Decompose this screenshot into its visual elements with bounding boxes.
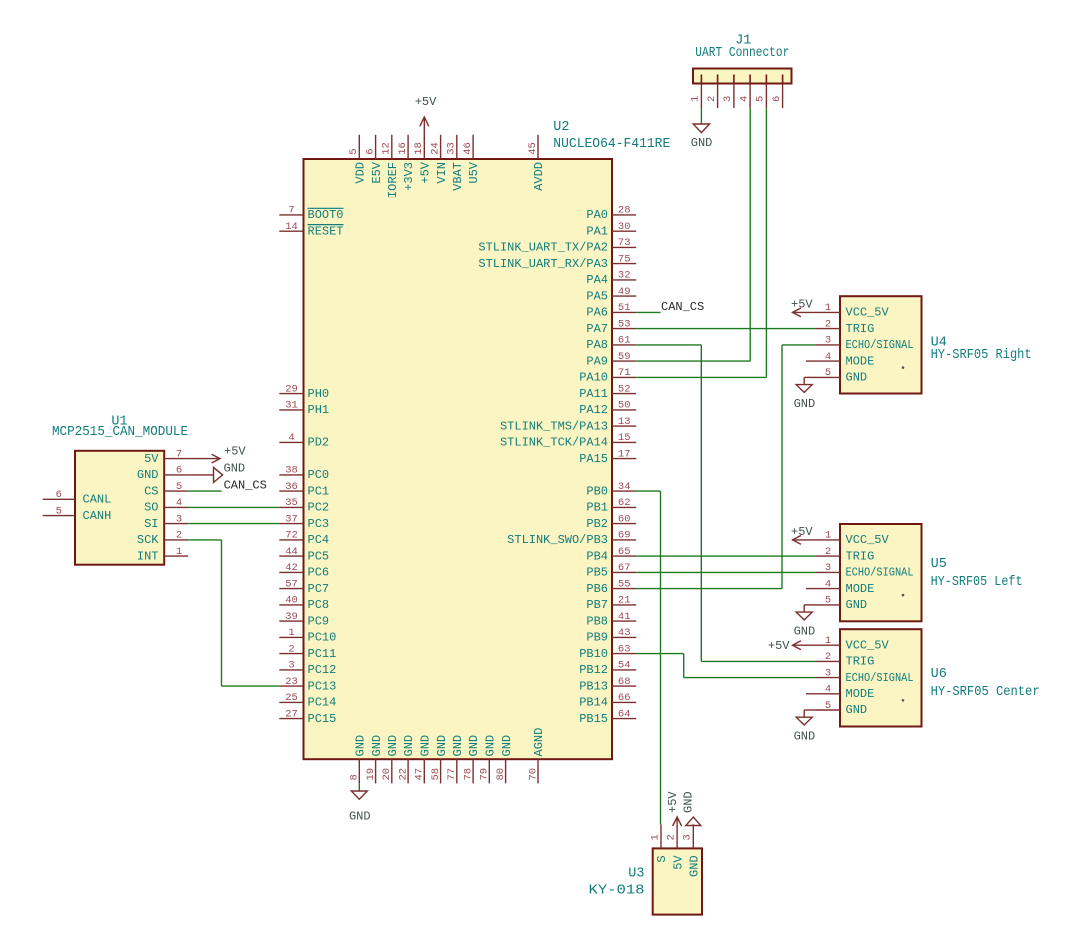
svg-text:PC8: PC8	[308, 598, 330, 612]
+5V power symbol at U1 pin 7	[188, 445, 246, 463]
J1 pin 6	[771, 75, 783, 109]
svg-text:+3V3: +3V3	[402, 162, 416, 191]
svg-text:TRIG: TRIG	[846, 322, 875, 336]
svg-text:GND: GND	[794, 730, 816, 744]
U1 pin 1 INT (right)	[137, 546, 188, 564]
svg-text:RESET: RESET	[308, 224, 344, 238]
svg-text:CAN_CS: CAN_CS	[661, 300, 704, 314]
U2 pin 66 PB14 (right)	[579, 692, 636, 709]
U2 pin 42 PC6 (left)	[279, 562, 329, 579]
svg-text:PD2: PD2	[308, 436, 330, 450]
U2 pin 12 IOREF (top)	[381, 135, 400, 198]
svg-text:GND: GND	[386, 735, 400, 757]
U2 pin 35 PC2 (left)	[279, 497, 329, 514]
svg-text:VCC_5V: VCC_5V	[846, 638, 890, 652]
U2 pin 53 PA7 (right)	[586, 318, 636, 335]
wire PB0 to U3 pin S	[636, 491, 660, 824]
svg-text:TRIG: TRIG	[846, 655, 875, 669]
svg-text:25: 25	[285, 692, 298, 704]
svg-text:1: 1	[288, 627, 294, 639]
U2 pin 23 PC13 (left)	[279, 676, 336, 694]
U2 pin 47 GND (bottom)	[414, 735, 433, 784]
U2 pin 18 +5V (top)	[413, 135, 432, 184]
svg-text:STLINK_UART_RX/PA3: STLINK_UART_RX/PA3	[478, 257, 608, 271]
U2 pin 33 VBAT (top)	[446, 135, 465, 191]
U2 pin 45 AVDD (top)	[527, 135, 546, 191]
svg-text:U2: U2	[553, 120, 569, 135]
svg-text:68: 68	[618, 676, 631, 688]
wire U1 SI to U2 PC3	[188, 523, 279, 525]
U2 pin 8 GND (bottom)	[349, 735, 368, 784]
U2 pin 13 STLINK_TMS/PA13 (right)	[500, 416, 636, 433]
svg-text:77: 77	[446, 768, 458, 781]
svg-text:CANH: CANH	[83, 509, 112, 523]
U6 value HY-SRF05 Center	[931, 685, 1040, 700]
svg-text:2: 2	[706, 96, 718, 102]
svg-text:27: 27	[285, 708, 298, 720]
svg-text:71: 71	[618, 367, 631, 379]
svg-text:GND: GND	[484, 735, 498, 757]
svg-text:STLINK_TMS/PA13: STLINK_TMS/PA13	[500, 419, 608, 433]
svg-text:4: 4	[825, 351, 831, 363]
U2 pin 16 +3V3 (top)	[397, 135, 416, 191]
svg-text:E5V: E5V	[370, 161, 384, 183]
U2 pin 5 VDD (top)	[348, 135, 367, 184]
svg-text:PB2: PB2	[586, 517, 608, 531]
svg-text:5: 5	[825, 595, 831, 607]
wire PB5 to U5 ECHO/SIGNAL	[636, 571, 816, 573]
svg-text:37: 37	[285, 513, 298, 525]
U2 pin 46 U5V (top)	[462, 135, 481, 184]
svg-text:GND: GND	[846, 703, 868, 717]
svg-text:GND: GND	[794, 624, 816, 638]
U2 pin 80 GND (bottom)	[495, 735, 514, 784]
svg-text:4: 4	[825, 684, 831, 696]
U2 pin 37 PC3 (left)	[279, 513, 329, 531]
svg-text:PB13: PB13	[579, 679, 608, 693]
U4 pin 5 GND	[816, 367, 867, 384]
U2 pin 40 PC8 (left)	[279, 595, 329, 612]
svg-text:21: 21	[618, 595, 631, 607]
svg-text:PA7: PA7	[586, 322, 608, 336]
svg-text:ECHO/SIGNAL: ECHO/SIGNAL	[846, 671, 914, 685]
U2 pin 63 PB10 (right)	[579, 643, 636, 661]
svg-text:PA8: PA8	[586, 338, 608, 352]
svg-text:70: 70	[527, 768, 539, 781]
svg-text:PC6: PC6	[308, 566, 330, 580]
svg-text:PC11: PC11	[308, 647, 337, 661]
GND power symbol at U1 pin 6	[188, 461, 245, 482]
svg-text:18: 18	[413, 142, 425, 155]
svg-text:51: 51	[618, 302, 631, 314]
svg-text:4: 4	[176, 497, 182, 509]
U1 pin 2 SCK (right)	[137, 530, 188, 547]
J1 pin 4	[738, 75, 750, 109]
U6 reference designator U6	[931, 667, 947, 682]
svg-text:1: 1	[649, 834, 661, 840]
svg-text:6: 6	[364, 148, 376, 154]
U4 reference designator U4	[931, 336, 947, 351]
svg-text:58: 58	[430, 768, 442, 781]
svg-text:VDD: VDD	[354, 162, 368, 184]
svg-text:49: 49	[618, 286, 631, 298]
svg-text:+5V: +5V	[419, 161, 433, 183]
svg-text:75: 75	[618, 253, 631, 265]
U1 pin 7 5V (right)	[144, 448, 188, 465]
svg-text:45: 45	[527, 142, 539, 155]
svg-text:CAN_CS: CAN_CS	[224, 479, 267, 493]
U2 pin 7 BOOT0 (left)	[279, 205, 343, 222]
GND power symbol at U2 pin 8	[349, 783, 371, 823]
svg-text:35: 35	[285, 497, 298, 509]
svg-text:53: 53	[618, 318, 631, 330]
U2 reference designator U2	[553, 120, 569, 135]
svg-text:60: 60	[618, 513, 631, 525]
U2 pin 25 PC14 (left)	[279, 692, 336, 709]
+5V power symbol at U5 pin 1	[791, 525, 816, 544]
svg-text:66: 66	[618, 692, 631, 704]
svg-text:GND: GND	[467, 735, 481, 757]
svg-text:41: 41	[618, 611, 631, 623]
svg-text:24: 24	[429, 142, 441, 155]
U2 pin 64 PB15 (right)	[579, 708, 636, 726]
svg-text:19: 19	[365, 768, 377, 781]
svg-text:46: 46	[462, 142, 474, 155]
U2 pin 70 AGND (bottom)	[527, 728, 546, 784]
svg-text:3: 3	[825, 667, 831, 679]
svg-text:80: 80	[495, 768, 507, 781]
svg-text:6: 6	[56, 489, 62, 501]
wire PA6 to CAN_CS label stub	[636, 311, 660, 313]
svg-text:63: 63	[618, 643, 631, 655]
svg-text:PC5: PC5	[308, 549, 330, 563]
svg-text:34: 34	[618, 481, 631, 493]
svg-text:HY-SRF05 Right: HY-SRF05 Right	[931, 348, 1032, 363]
U2 pin 54 PB12 (right)	[579, 660, 636, 677]
net label CAN_CS at PA6	[661, 300, 704, 314]
svg-text:5: 5	[56, 505, 62, 517]
svg-text:31: 31	[285, 400, 298, 412]
svg-text:PB12: PB12	[579, 663, 608, 677]
svg-text:GND: GND	[691, 136, 713, 150]
svg-text:PA6: PA6	[586, 306, 608, 320]
U2 pin 34 PB0 (right)	[586, 481, 636, 498]
svg-text:54: 54	[618, 660, 631, 672]
U2 pin 61 PA8 (right)	[586, 335, 636, 352]
wire U1 CS to CAN_CS label stub	[188, 490, 221, 492]
svg-text:CANL: CANL	[83, 493, 112, 507]
U5 value HY-SRF05 Left	[931, 575, 1023, 590]
svg-text:+5V: +5V	[666, 791, 680, 813]
svg-text:28: 28	[618, 205, 631, 217]
svg-text:GND: GND	[846, 598, 868, 612]
svg-text:72: 72	[285, 530, 298, 542]
U2 pin 36 PC1 (left)	[279, 481, 329, 498]
svg-text:23: 23	[285, 676, 298, 688]
svg-text:20: 20	[381, 768, 393, 781]
svg-text:69: 69	[618, 530, 631, 542]
U2 pin 29 PH0 (left)	[279, 383, 329, 400]
U2 pin 17 PA15 (right)	[579, 448, 636, 465]
svg-text:42: 42	[285, 562, 298, 574]
J1 reference designator J1	[735, 34, 751, 49]
U3 pin 3 GND (top)	[682, 824, 702, 877]
svg-text:3: 3	[825, 562, 831, 574]
svg-text:+5V: +5V	[224, 445, 246, 459]
U2 pin 72 PC4 (left)	[279, 530, 329, 547]
svg-text:7: 7	[288, 205, 294, 217]
U2 pin 27 PC15 (left)	[279, 708, 336, 726]
U2 pin 31 PH1 (left)	[279, 400, 329, 417]
svg-text:64: 64	[618, 708, 631, 720]
svg-text:36: 36	[285, 481, 298, 493]
IC U5 HY-SRF05 Left body	[840, 524, 922, 621]
svg-text:PC9: PC9	[308, 614, 330, 628]
U5 pin 4 MODE	[806, 578, 874, 596]
svg-text:5: 5	[348, 148, 360, 154]
J1 pin 2	[706, 75, 718, 109]
wire PB10 to U6 ECHO/SIGNAL	[636, 654, 816, 678]
U6 pin 1 VCC_5V	[816, 635, 890, 652]
U2 pin 1 PC10 (left)	[279, 627, 336, 644]
svg-text:MODE: MODE	[846, 354, 875, 368]
U2 pin 52 PA11 (right)	[579, 383, 636, 400]
U2 pin 57 PC7 (left)	[279, 578, 329, 596]
svg-text:78: 78	[462, 768, 474, 781]
svg-text:GND: GND	[681, 791, 695, 813]
svg-text:ECHO/SIGNAL: ECHO/SIGNAL	[846, 338, 914, 352]
U4 pin 4 MODE	[806, 351, 874, 368]
U1 pin 3 SI (right)	[144, 513, 188, 531]
svg-text:GND: GND	[794, 397, 816, 411]
+5V power symbol at U3 pin 2	[666, 791, 682, 826]
U2 pin 55 PB6 (right)	[586, 578, 636, 596]
U6 symbol dot mark	[902, 699, 905, 702]
U5 pin 5 GND	[816, 595, 867, 612]
svg-text:U6: U6	[931, 667, 947, 682]
svg-text:PC1: PC1	[308, 484, 330, 498]
svg-text:PB1: PB1	[586, 501, 608, 515]
svg-text:33: 33	[446, 142, 458, 155]
svg-text:PB10: PB10	[579, 647, 608, 661]
svg-text:S: S	[655, 855, 669, 862]
U5 symbol dot mark	[902, 594, 905, 597]
U2 pin 6 E5V (top)	[364, 135, 383, 184]
U2 pin 75 STLINK_UART_RX/PA3 (right)	[478, 253, 636, 270]
svg-text:PC13: PC13	[308, 679, 337, 693]
svg-text:PB0: PB0	[586, 484, 608, 498]
U5 pin 2 TRIG	[816, 546, 874, 564]
svg-text:PA11: PA11	[579, 387, 608, 401]
svg-text:73: 73	[618, 237, 631, 249]
svg-text:13: 13	[618, 416, 631, 428]
svg-text:+5V: +5V	[415, 95, 437, 109]
svg-text:15: 15	[618, 432, 631, 444]
U6 pin 2 TRIG	[816, 651, 874, 668]
svg-text:43: 43	[618, 627, 631, 639]
IC U6 HY-SRF05 Center body	[840, 629, 922, 726]
U2 pin 58 GND (bottom)	[430, 735, 449, 784]
svg-text:SI: SI	[144, 517, 158, 531]
svg-text:61: 61	[618, 335, 631, 347]
U4 pin 3 ECHO/SIGNAL	[816, 335, 914, 352]
svg-text:HY-SRF05 Center: HY-SRF05 Center	[931, 685, 1040, 700]
svg-text:65: 65	[618, 546, 631, 558]
svg-text:59: 59	[618, 351, 631, 363]
U2 pin 73 STLINK_UART_TX/PA2 (right)	[478, 237, 636, 254]
svg-text:PC14: PC14	[308, 696, 337, 710]
svg-text:PC15: PC15	[308, 712, 337, 726]
svg-text:50: 50	[618, 400, 631, 412]
svg-text:SCK: SCK	[137, 533, 159, 547]
svg-text:1: 1	[690, 96, 702, 102]
svg-text:14: 14	[285, 221, 298, 233]
U3 reference designator U3	[628, 867, 644, 882]
U2 pin 2 PC11 (left)	[279, 643, 336, 661]
U2 pin 43 PB9 (right)	[586, 627, 636, 644]
GND power symbol at U4 pin 5	[794, 377, 816, 411]
svg-text:17: 17	[618, 448, 631, 460]
svg-text:PH1: PH1	[308, 403, 330, 417]
svg-text:U5V: U5V	[467, 161, 481, 183]
svg-text:KY-018: KY-018	[589, 884, 645, 899]
svg-text:6: 6	[176, 465, 182, 477]
U2 pin 28 PA0 (right)	[586, 205, 636, 222]
connector J1 body	[693, 69, 792, 84]
U6 pin 3 ECHO/SIGNAL	[816, 667, 914, 684]
svg-text:GND: GND	[137, 468, 159, 482]
svg-text:MODE: MODE	[846, 687, 875, 701]
svg-text:MCP2515_CAN_MODULE: MCP2515_CAN_MODULE	[52, 425, 188, 440]
svg-text:PH0: PH0	[308, 387, 330, 401]
svg-text:2: 2	[825, 546, 831, 558]
svg-text:GND: GND	[224, 461, 246, 475]
U5 pin 1 VCC_5V	[816, 530, 890, 547]
svg-text:3: 3	[825, 335, 831, 347]
svg-text:3: 3	[682, 834, 694, 840]
wire PA10 to J1 pin 5	[636, 108, 766, 377]
svg-text:52: 52	[618, 383, 631, 395]
svg-text:67: 67	[618, 562, 631, 574]
svg-text:4: 4	[288, 432, 294, 444]
IC U3 KY-018 body	[653, 848, 702, 914]
U2 pin 38 PC0 (left)	[279, 465, 329, 482]
+5V power symbol at U6 pin 1	[768, 639, 816, 653]
svg-text:30: 30	[618, 221, 631, 233]
svg-text:VCC_5V: VCC_5V	[846, 533, 890, 547]
svg-text:PB5: PB5	[586, 566, 608, 580]
+5V power symbol at U2 pin 18	[415, 95, 437, 135]
svg-text:GND: GND	[354, 735, 368, 757]
svg-text:PB6: PB6	[586, 582, 608, 596]
svg-text:3: 3	[722, 96, 734, 102]
U2 pin 4 PD2 (left)	[279, 432, 329, 449]
svg-text:16: 16	[397, 142, 409, 155]
svg-text:STLINK_SWO/PB3: STLINK_SWO/PB3	[507, 533, 608, 547]
svg-text:VIN: VIN	[435, 162, 449, 184]
svg-text:U3: U3	[628, 867, 644, 882]
svg-text:PC2: PC2	[308, 501, 330, 515]
svg-text:PA10: PA10	[579, 371, 608, 385]
svg-text:PA4: PA4	[586, 273, 608, 287]
svg-text:1: 1	[825, 302, 831, 314]
svg-text:AVDD: AVDD	[532, 162, 546, 191]
svg-text:PA0: PA0	[586, 208, 608, 222]
svg-text:32: 32	[618, 270, 631, 282]
svg-text:2: 2	[176, 530, 182, 542]
svg-text:+5V: +5V	[791, 525, 813, 539]
svg-text:2: 2	[288, 643, 294, 655]
wire PB6 to U4 ECHO/SIGNAL	[636, 345, 816, 589]
U2 pin 41 PB8 (right)	[586, 611, 636, 629]
svg-text:5V: 5V	[671, 855, 685, 870]
svg-text:GND: GND	[402, 735, 416, 757]
svg-text:PA15: PA15	[579, 452, 608, 466]
svg-text:62: 62	[618, 497, 631, 509]
svg-text:UART Connector: UART Connector	[695, 46, 789, 61]
svg-text:STLINK_TCK/PA14: STLINK_TCK/PA14	[500, 436, 608, 450]
U1 reference designator U1	[111, 415, 127, 430]
svg-text:PA9: PA9	[586, 354, 608, 368]
U2 pin 24 VIN (top)	[429, 135, 448, 184]
wire U1 SCK to U2 PC13	[188, 540, 279, 686]
U2 pin 67 PB5 (right)	[586, 562, 636, 579]
U2 pin 79 GND (bottom)	[479, 735, 498, 784]
svg-text:AGND: AGND	[532, 728, 546, 757]
U2 pin 77 GND (bottom)	[446, 735, 465, 784]
svg-text:PC0: PC0	[308, 468, 330, 482]
svg-text:TRIG: TRIG	[846, 549, 875, 563]
svg-text:5V: 5V	[144, 452, 159, 466]
U2 pin 19 GND (bottom)	[365, 735, 384, 784]
U1 value MCP2515_CAN_MODULE	[52, 425, 188, 440]
wire PB4 to U5 TRIG	[636, 555, 816, 557]
svg-text:STLINK_UART_TX/PA2: STLINK_UART_TX/PA2	[478, 241, 608, 255]
svg-text:5: 5	[825, 367, 831, 379]
svg-text:4: 4	[738, 96, 750, 102]
svg-text:22: 22	[397, 768, 409, 781]
U1 pin 5 CS (right)	[144, 481, 188, 498]
U2 pin 69 STLINK_SWO/PB3 (right)	[507, 530, 636, 547]
svg-text:PC7: PC7	[308, 582, 330, 596]
svg-text:GND: GND	[435, 735, 449, 757]
svg-text:5: 5	[176, 481, 182, 493]
svg-text:7: 7	[176, 448, 182, 460]
svg-text:IOREF: IOREF	[386, 162, 400, 198]
U1 pin 6 GND (right)	[137, 465, 188, 482]
svg-text:6: 6	[771, 96, 783, 102]
svg-text:PB4: PB4	[586, 549, 608, 563]
GND power symbol at J1 pin 1	[691, 108, 713, 150]
GND power symbol at U6 pin 5	[794, 710, 816, 744]
wire PA9 to J1 pin 4	[636, 108, 750, 361]
svg-text:GND: GND	[349, 810, 371, 824]
svg-text:PB8: PB8	[586, 614, 608, 628]
U4 pin 2 TRIG	[816, 318, 874, 335]
svg-text:57: 57	[285, 578, 298, 590]
svg-text:GND: GND	[451, 735, 465, 757]
svg-text:2: 2	[665, 834, 677, 840]
J1 pin 1	[690, 75, 702, 109]
U2 pin 49 PA5 (right)	[586, 286, 636, 303]
svg-text:GND: GND	[419, 735, 433, 757]
IC U2 NUCLEO64-F411RE body	[304, 159, 613, 759]
svg-text:PA12: PA12	[579, 403, 608, 417]
svg-text:1: 1	[825, 530, 831, 542]
svg-text:VCC_5V: VCC_5V	[846, 306, 890, 320]
svg-text:CS: CS	[144, 484, 158, 498]
svg-text:39: 39	[285, 611, 298, 623]
